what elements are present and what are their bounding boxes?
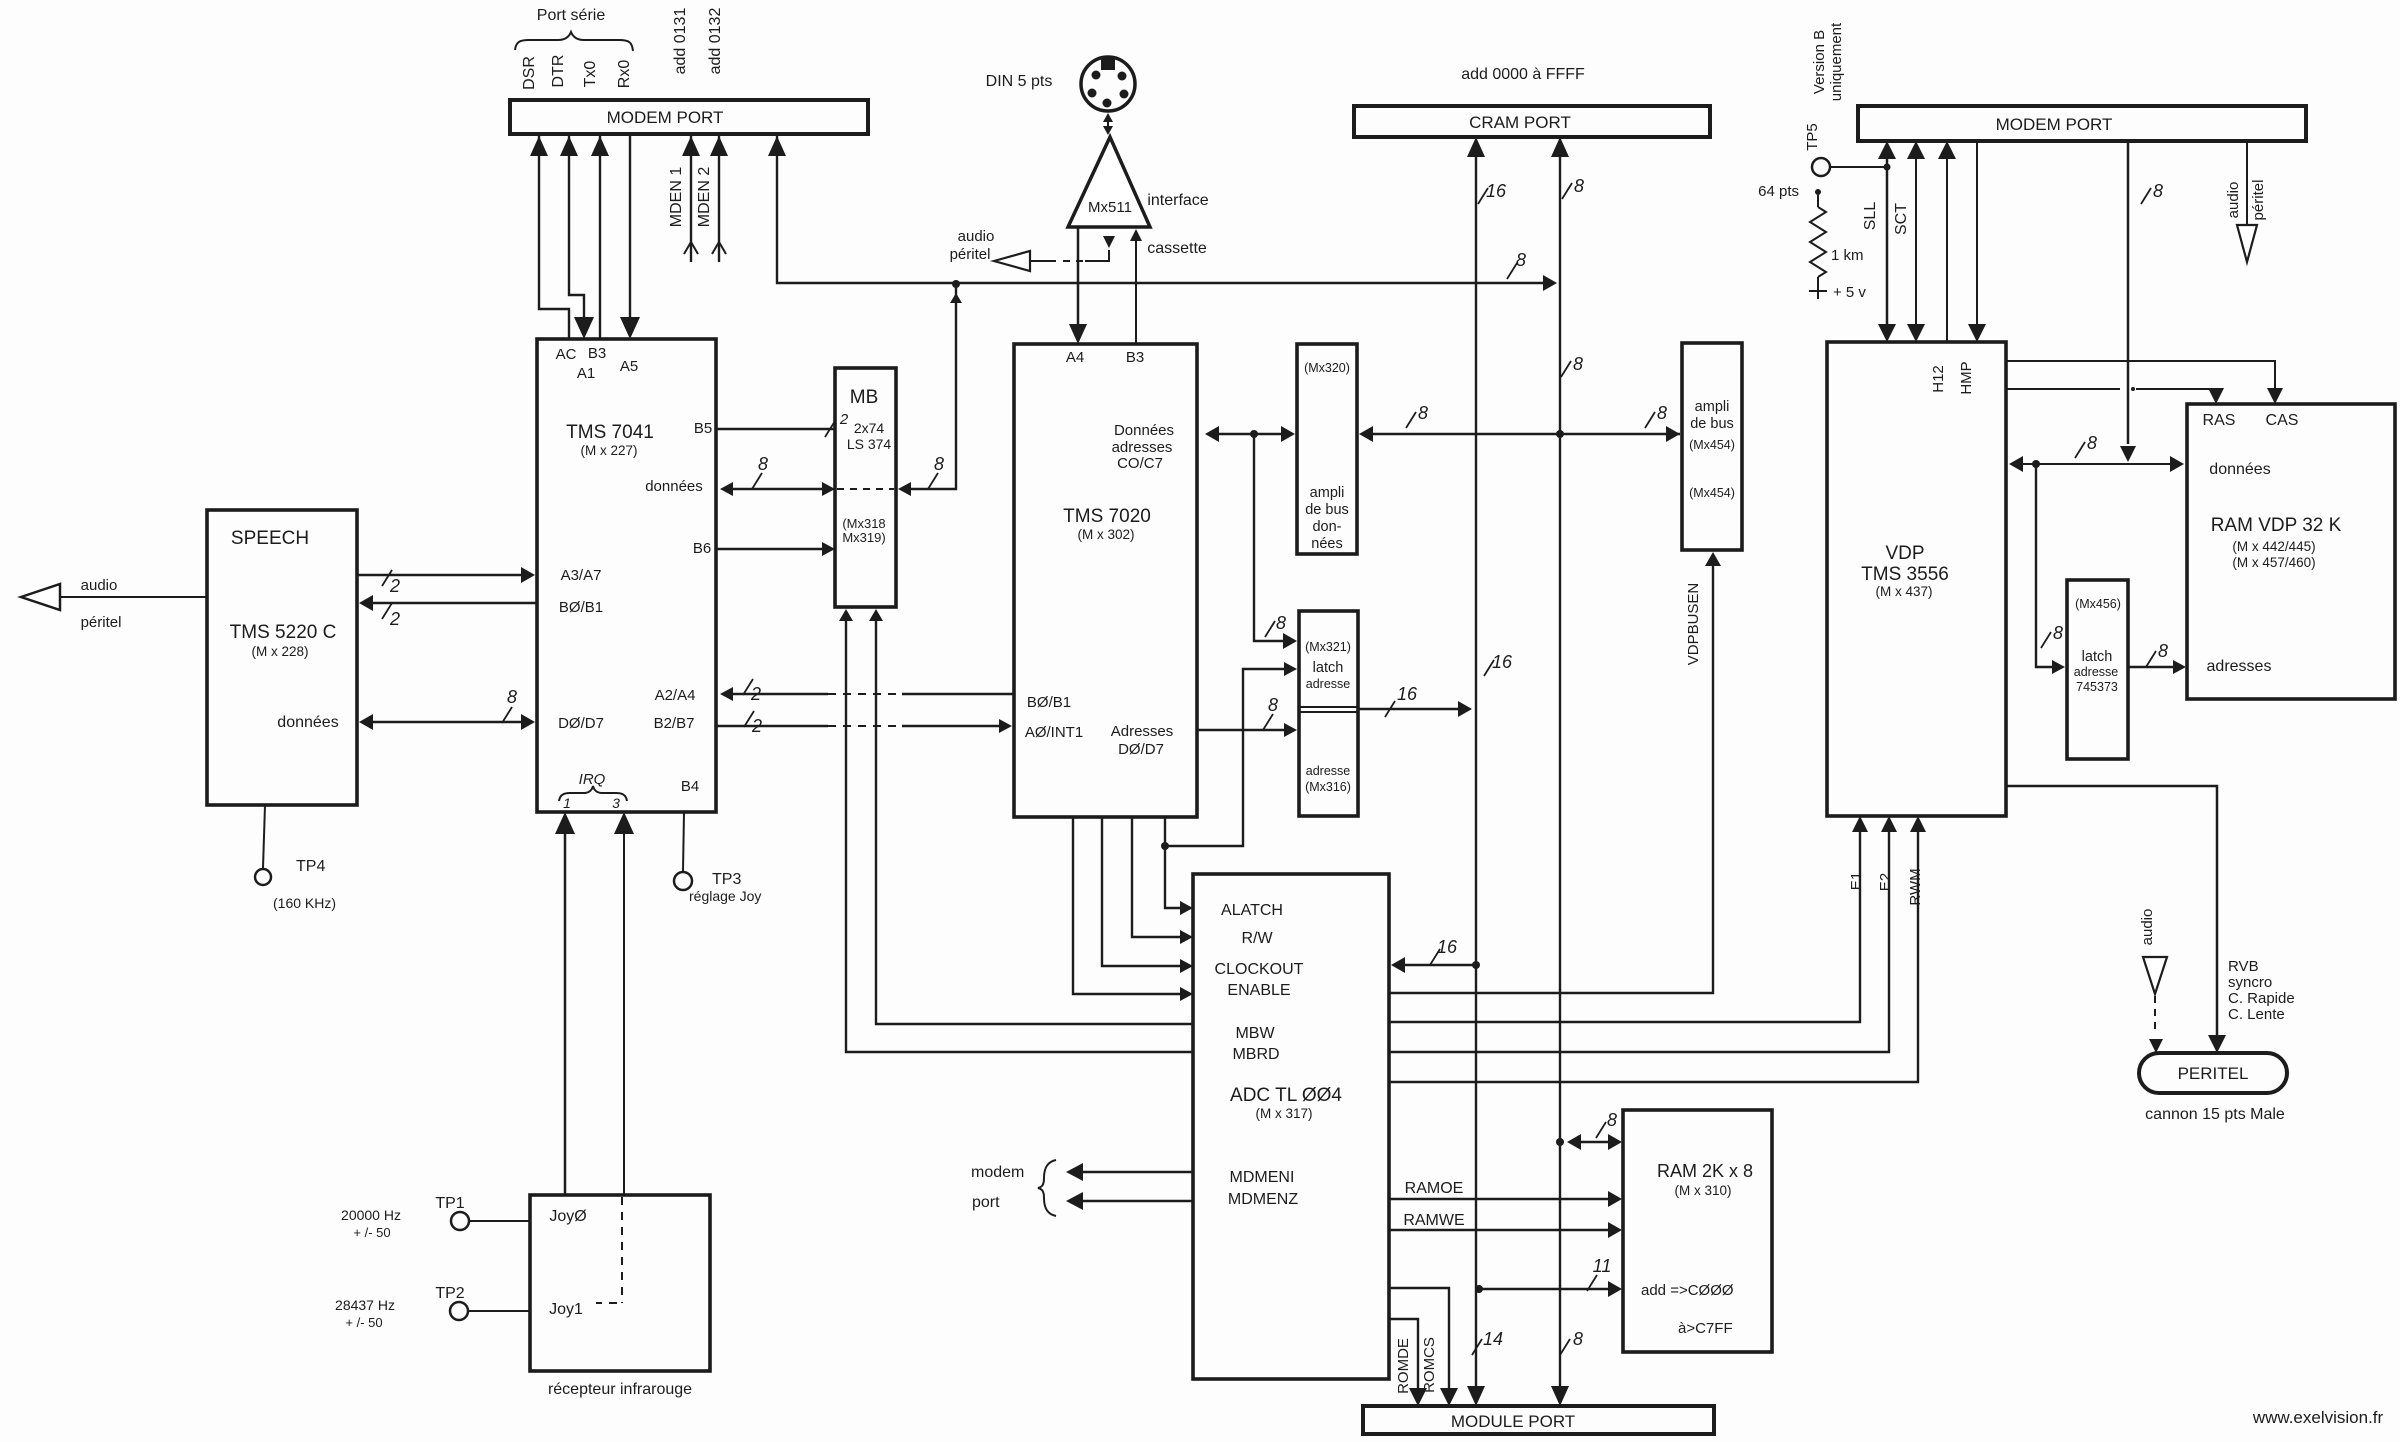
IC U12 RAM 2K x 8 [1623, 1110, 1772, 1352]
svg-text:DØ/D7: DØ/D7 [558, 715, 604, 732]
svg-text:TP3: TP3 [712, 871, 741, 888]
svg-text:8: 8 [758, 454, 768, 474]
label audio at J5 [2139, 909, 2156, 946]
svg-text:20000 Hz: 20000 Hz [341, 1207, 401, 1223]
svg-text:TMS 7020: TMS 7020 [1063, 506, 1151, 527]
wire U11 RAMOE to U12 [1389, 1191, 1622, 1207]
svg-text:péritel: péritel [950, 246, 991, 263]
svg-text:A1: A1 [577, 365, 595, 382]
svg-text:audio: audio [2225, 182, 2242, 219]
svg-text:B2/B7: B2/B7 [654, 715, 695, 732]
svg-text:8: 8 [1657, 403, 1667, 423]
svg-text:add 0000 à FFFF: add 0000 à FFFF [1461, 66, 1585, 83]
svg-text:(M x 317): (M x 317) [1255, 1106, 1312, 1121]
svg-text:E1: E1 [1848, 872, 1865, 890]
wire U8 CAS to U9 [2006, 361, 2283, 404]
svg-text:8: 8 [1276, 613, 1286, 633]
svg-text:8: 8 [1573, 1329, 1583, 1349]
svg-text:CLOCKOUT: CLOCKOUT [1215, 961, 1304, 978]
svg-text:(M x 310): (M x 310) [1674, 1183, 1731, 1198]
svg-text:adresses: adresses [1112, 439, 1173, 456]
svg-text:B5: B5 [694, 420, 712, 437]
resistor R1 1 km [1810, 195, 1864, 290]
svg-text:adresse: adresse [1306, 677, 1351, 691]
label MDEN 2 [696, 167, 713, 228]
junction node on 16-bus at RAM add [1475, 1285, 1483, 1293]
svg-text:cannon 15 pts Male: cannon 15 pts Male [2145, 1106, 2285, 1123]
junction node on 16-bus at ADC [1472, 961, 1480, 969]
label pin DSR [521, 56, 538, 90]
svg-text:syncro: syncro [2228, 974, 2272, 991]
label MDEN 1 [668, 167, 685, 228]
svg-text:8: 8 [934, 454, 944, 474]
svg-text:16: 16 [1397, 684, 1418, 704]
svg-text:16: 16 [1492, 652, 1513, 672]
wire node F1 to U10 (8) [2036, 464, 2065, 674]
label Version B uniquement [1811, 22, 1845, 101]
connector DIN 5 pts [1081, 57, 1135, 111]
label pin Tx0 [582, 61, 599, 88]
svg-text:adresse: adresse [2074, 665, 2119, 679]
wire U11 ENABLE row to VDPBUSEN [1389, 552, 1721, 993]
svg-text:MBW: MBW [1235, 1025, 1275, 1042]
wire U1 donnees bus to U2 D0/D7 (8) [359, 687, 535, 730]
svg-text:SPEECH: SPEECH [231, 528, 309, 549]
svg-text:SLL: SLL [1862, 202, 1879, 231]
wire U11 MDMENI out [1066, 1163, 1193, 1181]
wire U4 pin to U11 CLOCKOUT [1102, 817, 1193, 973]
wire U4 donnees to U5 (8) [1205, 426, 1295, 442]
label 28437 Hz [335, 1297, 395, 1330]
wire donnees bus U2-U3 (8) [720, 454, 835, 496]
svg-text:RAMOE: RAMOE [1405, 1180, 1464, 1197]
svg-text:+ /- 50: + /- 50 [353, 1225, 390, 1240]
IC U8 VDP TMS 3556 [1827, 342, 2006, 816]
svg-text:Adresses: Adresses [1111, 723, 1174, 740]
wire U2 B6 to U3 [716, 542, 835, 556]
testpoint TP2 [435, 1285, 530, 1320]
wire address bus 16 vertical [1467, 137, 1513, 1406]
label interface [1147, 192, 1208, 209]
svg-text:BØ/B1: BØ/B1 [559, 599, 603, 616]
svg-text:adresses: adresses [2207, 658, 2272, 675]
wire U2 B0/B1 to U1 (2) [359, 595, 537, 629]
label modem port [971, 1160, 1056, 1216]
wire IRQ3 from U13 [614, 812, 634, 1195]
wire SCT [1907, 141, 1925, 342]
wire U1 to U2 A3/A7 (2) [357, 567, 535, 596]
svg-text:+ /- 50: + /- 50 [345, 1315, 382, 1330]
wire U11 MDMENZ out [1066, 1192, 1193, 1210]
wire U8 donnees to U9 (8) [2009, 433, 2184, 472]
label www.exelvision.fr [2252, 1408, 2384, 1427]
svg-text:ALATCH: ALATCH [1221, 902, 1283, 919]
svg-text:données: données [277, 714, 338, 731]
wire U11 ROMCS to MODULE PORT [1389, 1288, 1458, 1406]
svg-text:réglage Joy: réglage Joy [689, 888, 761, 904]
svg-text:(Mx454): (Mx454) [1689, 486, 1735, 500]
svg-text:CAS: CAS [2266, 412, 2299, 429]
svg-text:B3: B3 [1126, 349, 1144, 366]
svg-text:16: 16 [1437, 937, 1458, 957]
junction node F1 on donnees [2032, 460, 2040, 468]
label audio peritel right [2225, 180, 2267, 221]
svg-text:A5: A5 [620, 358, 638, 375]
IC U4 TMS 7020 [1014, 344, 1197, 817]
label ROMDE [1395, 1338, 1412, 1394]
wire bus MODEM PORT to node C1 (8) [768, 134, 1557, 291]
wire donnees bus inside U3 (dashed) [837, 488, 894, 490]
amplifier U14 Mx511 interface [1068, 137, 1150, 227]
svg-text:Mx319): Mx319) [842, 530, 885, 545]
svg-text:Mx511: Mx511 [1088, 199, 1132, 216]
svg-text:cassette: cassette [1147, 240, 1207, 257]
wire donnees bus from node B1 to U3 [898, 285, 962, 496]
svg-text:C. Rapide: C. Rapide [2228, 990, 2295, 1007]
junction node B1 on bus [952, 280, 960, 288]
svg-text:latch: latch [2082, 649, 2113, 665]
svg-text:(Mx456): (Mx456) [2075, 597, 2121, 611]
svg-text:LS 374: LS 374 [847, 436, 892, 452]
svg-text:+ 5 v: + 5 v [1833, 284, 1866, 301]
svg-text:(M x 437): (M x 437) [1875, 584, 1932, 599]
svg-text:2x74: 2x74 [854, 420, 885, 436]
svg-text:16: 16 [1486, 181, 1507, 201]
svg-text:MDEN 2: MDEN 2 [696, 167, 713, 228]
svg-text:TP2: TP2 [435, 1285, 464, 1302]
svg-text:BØ/B1: BØ/B1 [1027, 694, 1071, 711]
svg-text:ENABLE: ENABLE [1227, 982, 1290, 999]
svg-text:RVB: RVB [2228, 958, 2259, 975]
wire U3 MBW pin down [869, 609, 1193, 1024]
svg-text:HMP: HMP [1958, 361, 1975, 394]
svg-text:VDP: VDP [1885, 543, 1924, 564]
svg-text:MODEM PORT: MODEM PORT [1996, 115, 2113, 134]
wire Joy dashed link [596, 1197, 622, 1303]
svg-text:DIN 5 pts: DIN 5 pts [986, 73, 1053, 90]
svg-text:RAS: RAS [2203, 412, 2236, 429]
svg-text:(M x 302): (M x 302) [1077, 527, 1134, 542]
svg-text:CRAM PORT: CRAM PORT [1469, 113, 1571, 132]
svg-text:8: 8 [507, 687, 517, 707]
wire 8-bus to U12 data (8) [1567, 1110, 1622, 1150]
wire U4 Adresses D0/D7 to U6 (8) [1197, 695, 1297, 737]
svg-text:JoyØ: JoyØ [549, 1208, 586, 1225]
svg-text:PERITEL: PERITEL [2178, 1064, 2249, 1083]
svg-text:ampli: ampli [1310, 485, 1345, 501]
svg-text:ADC TL ØØ4: ADC TL ØØ4 [1230, 1085, 1342, 1106]
svg-text:de bus: de bus [1690, 416, 1734, 432]
testpoint TP1 [435, 1195, 530, 1230]
testpoint TP5 [1804, 123, 1891, 176]
wire Rx0 to U2 pin A5 [620, 134, 640, 339]
connector J5 PERITEL [2139, 1053, 2287, 1123]
svg-text:DSR: DSR [521, 56, 538, 90]
svg-text:de bus: de bus [1305, 502, 1349, 518]
svg-text:14: 14 [1483, 1329, 1503, 1349]
svg-text:uniquement: uniquement [1828, 22, 1845, 101]
connector J4 MODULE PORT [1363, 1406, 1714, 1434]
svg-text:MODEM PORT: MODEM PORT [607, 108, 724, 127]
svg-text:8: 8 [1574, 176, 1584, 196]
svg-text:DTR: DTR [550, 55, 567, 88]
svg-text:(160 KHz): (160 KHz) [273, 895, 336, 911]
svg-text:2: 2 [750, 684, 761, 704]
wire U4 pin to U11 R/W [1132, 817, 1193, 944]
junction node D2 on 8-bus [1556, 1138, 1564, 1146]
wire U10 to U9 adresses (8) [2128, 641, 2186, 674]
label audio peritel left [81, 577, 122, 631]
wire U4 pin to U11 ENABLE [1073, 817, 1193, 1001]
label Port serie [537, 7, 606, 24]
wire U8 RAS to U9 [2006, 387, 2224, 404]
svg-text:VDPBUSEN: VDPBUSEN [1685, 583, 1702, 666]
svg-text:latch: latch [1313, 660, 1344, 676]
svg-text:add 0131: add 0131 [672, 8, 689, 75]
svg-text:(M x 457/460): (M x 457/460) [2232, 555, 2315, 570]
svg-text:8: 8 [1573, 354, 1583, 374]
power +5v [1809, 283, 1866, 301]
svg-text:B3: B3 [588, 345, 606, 362]
svg-text:AØ/INT1: AØ/INT1 [1025, 724, 1083, 741]
wire DTR to U2 pin A1 [560, 134, 594, 339]
IC U7 ampli de bus (Mx454) [1682, 343, 1742, 550]
svg-text:(Mx454): (Mx454) [1689, 438, 1735, 452]
svg-text:TMS 5220 C: TMS 5220 C [230, 622, 337, 643]
svg-text:8: 8 [1516, 250, 1526, 270]
wire 8-bus to U5 right (8) [1359, 403, 1680, 442]
wire U8 RVB to J5 [2006, 786, 2226, 1053]
svg-text:MODULE PORT: MODULE PORT [1451, 1412, 1575, 1431]
label 20000 Hz [341, 1207, 401, 1240]
svg-text:interface: interface [1147, 192, 1208, 209]
svg-text:B4: B4 [681, 778, 699, 795]
svg-text:TP4: TP4 [296, 858, 325, 875]
svg-text:2: 2 [751, 716, 762, 736]
connector J3 MODEM PORT (right) [1858, 106, 2306, 141]
wire U14 to U4 A4 [1069, 227, 1087, 344]
IC U1 SPEECH TMS 5220 C [207, 510, 357, 805]
svg-text:audio: audio [958, 228, 995, 245]
svg-text:adresse: adresse [1306, 764, 1351, 778]
label RWM [1907, 868, 1924, 905]
wire DSR to U2 pin AC [530, 134, 569, 339]
IC U6 latch adresse (Mx321)/(Mx316) [1299, 611, 1358, 816]
junction node D1 on 8-bus [1556, 430, 1564, 438]
label RAMWE [1403, 1212, 1464, 1229]
wire 16-bus to U11 (16) [1391, 937, 1476, 973]
wire data bus 8 vertical [1551, 137, 1584, 1406]
label E2 [1877, 873, 1894, 891]
wire IRQ1 from U13 [555, 812, 575, 1195]
svg-text:péritel: péritel [81, 614, 122, 631]
testpoint TP4 [255, 805, 336, 911]
label audio peritel at U14 [950, 228, 995, 263]
svg-text:8: 8 [2158, 641, 2168, 661]
svg-text:Données: Données [1114, 422, 1174, 439]
svg-text:11: 11 [1593, 1256, 1612, 1276]
svg-text:745373: 745373 [2076, 680, 2118, 694]
svg-text:(M x 227): (M x 227) [580, 443, 637, 458]
svg-text:IRQ: IRQ [579, 771, 606, 788]
svg-text:TP1: TP1 [435, 1195, 464, 1212]
wire Tx0 to U2 pin B3 [591, 134, 609, 339]
svg-text:A2/A4: A2/A4 [655, 687, 696, 704]
label add 0132 [707, 8, 724, 75]
svg-text:AC: AC [556, 346, 577, 363]
svg-text:add =>CØØØ: add =>CØØØ [1641, 1282, 1734, 1299]
wire audio out of U14 [994, 236, 1115, 271]
wire 8-bus MODEM PORT right down (8) [2120, 141, 2163, 462]
svg-text:8: 8 [1607, 1110, 1617, 1130]
svg-text:64 pts: 64 pts [1758, 183, 1799, 200]
svg-text:1: 1 [563, 795, 571, 811]
svg-text:B6: B6 [693, 540, 711, 557]
wire U6 address out 16 to bus [1358, 684, 1472, 717]
svg-text:RAM VDP 32 K: RAM VDP 32 K [2211, 515, 2342, 536]
svg-text:SCT: SCT [1893, 203, 1910, 235]
svg-text:Joy1: Joy1 [549, 1301, 583, 1318]
wire cassette to U4 B3 [1130, 229, 1142, 344]
svg-text:www.exelvision.fr: www.exelvision.fr [2252, 1408, 2384, 1427]
label 64 pts [1758, 183, 1821, 200]
label add 0131 [672, 8, 689, 75]
svg-text:C. Lente: C. Lente [2228, 1006, 2285, 1023]
svg-text:(Mx320): (Mx320) [1304, 361, 1350, 375]
wire U2 B5 to U3 (2) [716, 411, 849, 437]
connector J1 MODEM PORT (left) [510, 100, 868, 134]
svg-text:R/W: R/W [1241, 930, 1273, 947]
wire U11 to U8 RWM [1389, 816, 1926, 1082]
svg-text:modem: modem [971, 1164, 1024, 1181]
svg-text:audio: audio [2139, 909, 2156, 946]
connector J2 CRAM PORT [1354, 106, 1710, 137]
IC U13 recepteur infrarouge (Joy) [530, 1195, 710, 1398]
wire MDEN 1 [682, 134, 700, 262]
svg-text:port: port [972, 1194, 1000, 1211]
IC U10 latch adresse 745373 (Mx456) [2067, 580, 2128, 759]
svg-text:TP5: TP5 [1804, 123, 1821, 151]
svg-text:(M x 442/445): (M x 442/445) [2232, 539, 2315, 554]
wire MDEN 2 [710, 134, 728, 262]
svg-text:données: données [2209, 461, 2270, 478]
svg-text:H12: H12 [1930, 365, 1947, 393]
junction node E1 on ALATCH wire [1161, 842, 1169, 850]
svg-text:2: 2 [839, 411, 849, 428]
wire audio peritel out of U1 [21, 584, 207, 610]
svg-text:(Mx321): (Mx321) [1305, 640, 1351, 654]
wire 16-bus to U12 add (11) [1479, 1256, 1622, 1297]
svg-text:MDMENI: MDMENI [1230, 1169, 1295, 1186]
wire SLL [1878, 141, 1896, 342]
svg-text:(Mx316): (Mx316) [1305, 780, 1351, 794]
svg-text:RWM: RWM [1907, 868, 1924, 905]
svg-text:8: 8 [2153, 181, 2163, 201]
label E1 [1848, 872, 1865, 890]
label SCT [1893, 203, 1910, 235]
svg-text:Tx0: Tx0 [582, 61, 599, 88]
svg-text:TMS 7041: TMS 7041 [566, 422, 654, 443]
svg-text:A4: A4 [1066, 349, 1084, 366]
wire U2 B2/B7 to U4 A0/INT1 (2) [716, 711, 1012, 736]
svg-text:TMS 3556: TMS 3556 [1861, 564, 1949, 585]
svg-text:add 0132: add 0132 [707, 8, 724, 75]
IC U9 RAM VDP 32 K [2187, 404, 2395, 699]
label VDPBUSEN [1685, 583, 1702, 666]
svg-text:2: 2 [389, 576, 400, 596]
wire HMP from MODEM PORT [1968, 141, 1986, 342]
label ROMCS [1421, 1337, 1438, 1393]
svg-text:RAM 2K x 8: RAM 2K x 8 [1657, 1161, 1753, 1181]
wire U11 to U8 E2 [1389, 816, 1897, 1052]
IC U11 ADC TL 004 [1193, 874, 1389, 1379]
wire U4 pin to U11 ALATCH [1165, 817, 1193, 915]
svg-text:8: 8 [2087, 433, 2097, 453]
svg-text:Port série: Port série [537, 7, 606, 24]
svg-text:récepteur infrarouge: récepteur infrarouge [548, 1381, 692, 1398]
label IRQ [563, 771, 620, 811]
label SLL [1862, 202, 1879, 231]
wire node to U6 latch input (8) [1254, 434, 1297, 649]
svg-text:MBRD: MBRD [1232, 1046, 1279, 1063]
IC U2 TMS 7041 [537, 339, 716, 812]
svg-text:CO/C7: CO/C7 [1117, 455, 1163, 472]
svg-text:MB: MB [850, 387, 879, 408]
wire U11 RAMWE to U12 [1389, 1222, 1622, 1238]
junction node on donnees bus [1250, 430, 1258, 438]
wire U11 to U8 E1 [1389, 816, 1868, 1022]
svg-text:Version B: Version B [1811, 30, 1828, 94]
svg-text:MDMENZ: MDMENZ [1228, 1191, 1298, 1208]
svg-text:8: 8 [1418, 403, 1428, 423]
svg-text:DØ/D7: DØ/D7 [1118, 741, 1164, 758]
label RVB syncro [2228, 958, 2295, 1023]
IC U5 ampli de bus donnees (Mx320) [1297, 344, 1357, 554]
wire node E1 to U6 latch enable [1165, 662, 1297, 846]
label DIN 5 pts [986, 73, 1053, 90]
svg-text:28437 Hz: 28437 Hz [335, 1297, 395, 1313]
wire H12 to MODEM PORT [1938, 141, 1956, 342]
svg-text:ROMCS: ROMCS [1421, 1337, 1438, 1393]
svg-text:(M x 228): (M x 228) [251, 644, 308, 659]
label RAMOE [1405, 1180, 1464, 1197]
testpoint TP3 on U2 B4 [674, 812, 761, 904]
svg-text:audio: audio [81, 577, 118, 594]
svg-text:(Mx318: (Mx318 [842, 516, 885, 531]
wire audio to J5 [2143, 957, 2167, 1053]
svg-text:ROMDE: ROMDE [1395, 1338, 1412, 1394]
svg-text:ampli: ampli [1695, 399, 1730, 415]
label cassette [1147, 240, 1207, 257]
svg-text:8: 8 [2053, 623, 2063, 643]
label pin DTR [550, 55, 567, 88]
svg-text:8: 8 [1268, 695, 1278, 715]
label add 0000 a FFFF [1461, 66, 1585, 83]
svg-text:RAMWE: RAMWE [1403, 1212, 1464, 1229]
svg-text:2: 2 [389, 609, 400, 629]
brace Port serie [515, 32, 633, 51]
svg-text:à>C7FF: à>C7FF [1678, 1320, 1733, 1337]
svg-text:péritel: péritel [2250, 180, 2267, 221]
svg-text:1 km: 1 km [1831, 247, 1864, 264]
svg-text:don-: don- [1312, 519, 1341, 535]
svg-text:données: données [645, 478, 703, 495]
wire DIN to U14 (bidirectional) [1103, 113, 1113, 135]
svg-text:Rx0: Rx0 [616, 60, 633, 89]
svg-text:E2: E2 [1877, 873, 1894, 891]
wire U11 ROMDE to MODULE PORT [1389, 1319, 1427, 1406]
IC U3 MB 2x74 LS 374 [835, 368, 896, 607]
